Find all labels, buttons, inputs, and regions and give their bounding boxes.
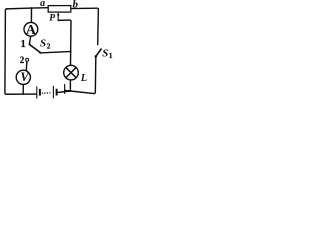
svg-text:P: P	[49, 14, 55, 24]
svg-text:1: 1	[109, 51, 113, 60]
svg-text:b: b	[73, 0, 79, 11]
svg-text:S: S	[40, 38, 46, 50]
svg-text:S: S	[102, 48, 108, 60]
svg-text:2: 2	[47, 43, 51, 51]
svg-text:A: A	[26, 23, 37, 38]
svg-text:2: 2	[20, 55, 25, 65]
svg-text:L: L	[80, 73, 87, 84]
svg-text:a: a	[40, 0, 45, 9]
svg-text:1: 1	[21, 39, 26, 50]
